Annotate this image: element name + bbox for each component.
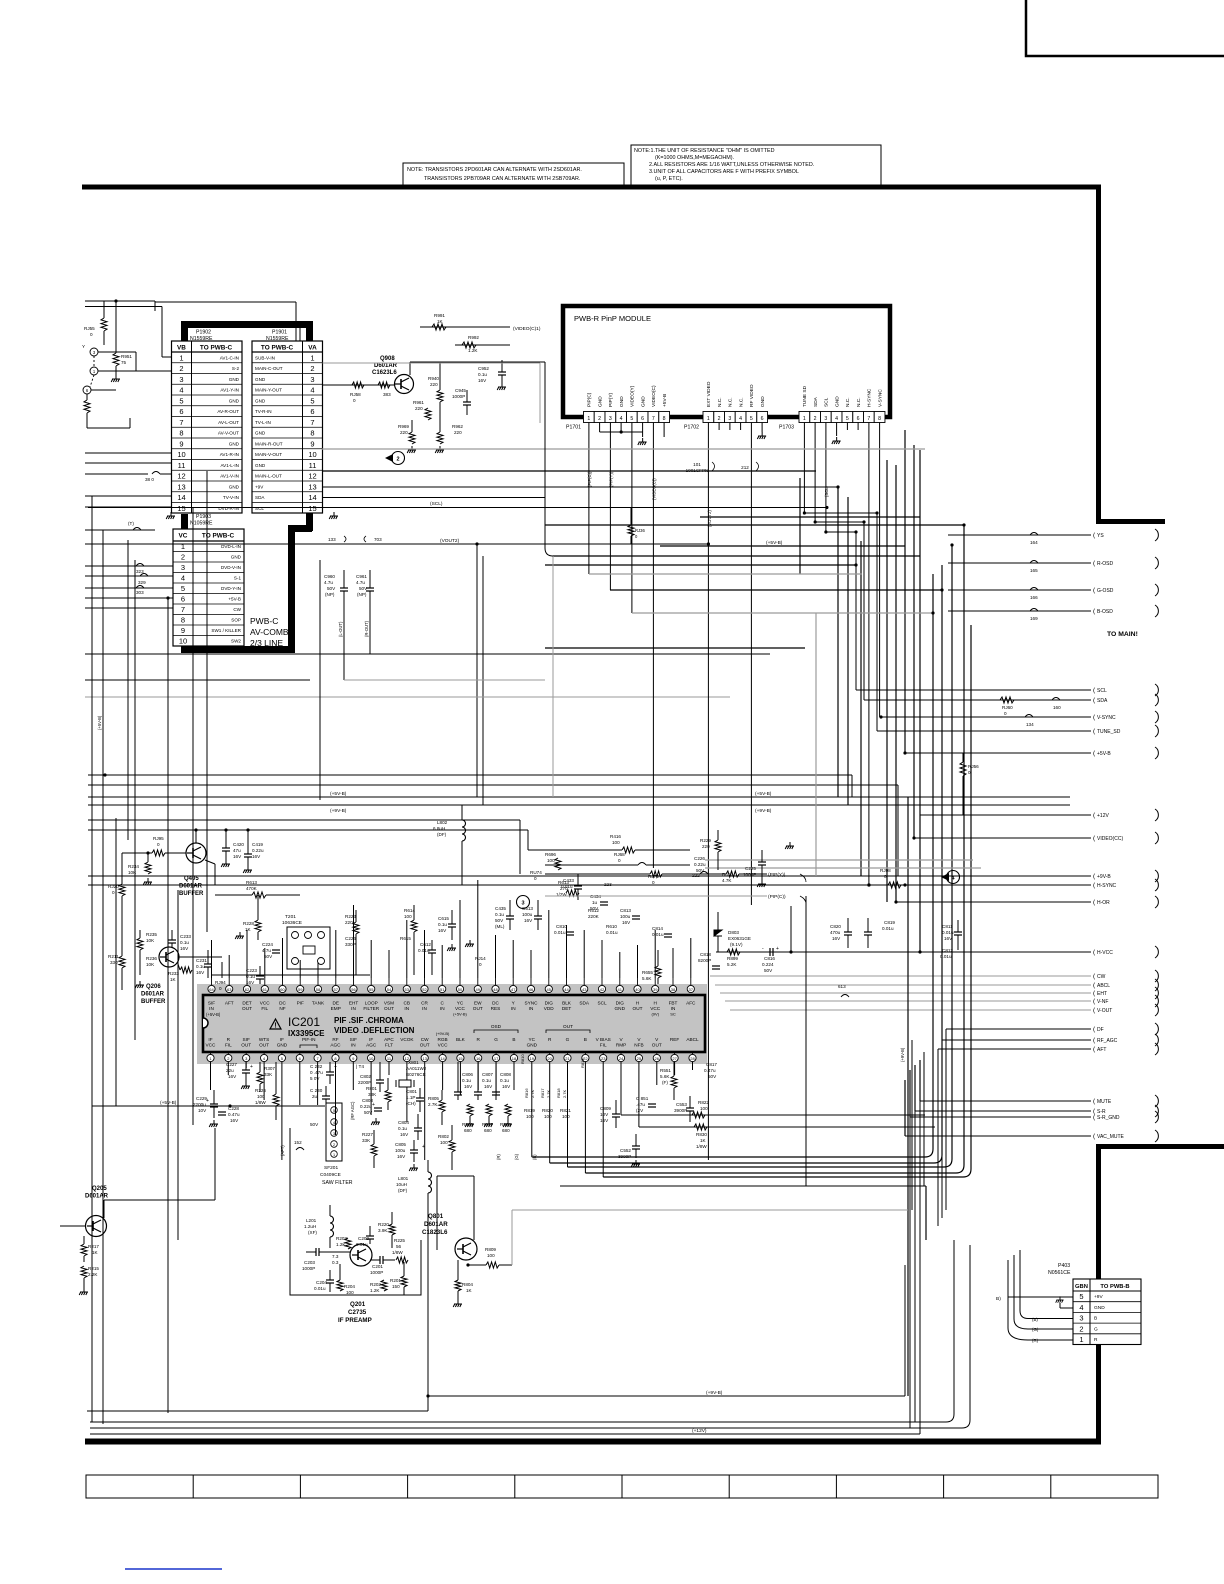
svg-text:0.22u: 0.22u <box>694 862 706 867</box>
svg-text:RJ20: RJ20 <box>108 884 119 889</box>
svg-text:N.C.: N.C. <box>845 397 851 407</box>
svg-text:16V: 16V <box>600 1118 609 1123</box>
svg-text:0.01u: 0.01u <box>356 1242 368 1247</box>
svg-text:0.1u: 0.1u <box>196 964 205 969</box>
svg-text:RJ55: RJ55 <box>84 326 95 331</box>
svg-text:2.7K: 2.7K <box>546 1089 551 1098</box>
wire VA row <box>323 497 546 499</box>
svg-text:6: 6 <box>857 416 860 422</box>
svg-text:GND: GND <box>229 398 240 403</box>
svg-text:+9V: +9V <box>1094 1294 1103 1300</box>
module box PWB-R PinP <box>563 306 890 417</box>
svg-text:3: 3 <box>333 1132 335 1136</box>
svg-text:10: 10 <box>308 450 316 459</box>
svg-text:EX0631GE: EX0631GE <box>728 936 751 941</box>
svg-text:+: + <box>422 1144 425 1150</box>
svg-text:C804: C804 <box>398 1120 409 1125</box>
svg-text:1: 1 <box>1079 1335 1083 1344</box>
svg-text:(: ( <box>1093 812 1096 819</box>
svg-text:10: 10 <box>177 450 185 459</box>
svg-text:L801: L801 <box>398 1176 409 1181</box>
svg-text:4: 4 <box>310 386 314 395</box>
svg-text:VCC: VCC <box>455 1006 466 1011</box>
wire vertical R-OUT <box>369 640 371 654</box>
svg-text:CW: CW <box>233 607 241 612</box>
svg-text:C811: C811 <box>942 924 953 929</box>
thick outline right vertical <box>306 324 313 531</box>
svg-text:OUT: OUT <box>242 1006 252 1011</box>
svg-text:5: 5 <box>1079 1292 1083 1301</box>
svg-text:10: 10 <box>369 1056 374 1061</box>
wire VA row <box>323 486 839 488</box>
svg-text:ABCL: ABCL <box>686 1037 699 1042</box>
svg-text:R220: R220 <box>378 1222 389 1227</box>
svg-text:50V: 50V <box>327 586 336 591</box>
svg-text:R551: R551 <box>660 1068 671 1073</box>
resistor jump 160 <box>1052 698 1060 701</box>
svg-text:FLT: FLT <box>385 1043 393 1048</box>
svg-text:R821: R821 <box>560 1108 571 1113</box>
svg-text:+5V-B: +5V-B <box>228 597 241 602</box>
svg-text:(+9V-B): (+9V-B) <box>706 1390 723 1396</box>
svg-text:DET: DET <box>562 1006 572 1011</box>
ground R807 <box>484 1120 493 1127</box>
svg-text:0: 0 <box>884 874 887 879</box>
svg-text:21: 21 <box>565 1056 570 1061</box>
svg-text:SDA: SDA <box>813 396 819 407</box>
svg-text:R202: R202 <box>370 1282 381 1287</box>
svg-text:C233: C233 <box>180 934 191 939</box>
svg-text:H-SYNC: H-SYNC <box>867 388 873 407</box>
svg-text:GND: GND <box>834 396 840 407</box>
svg-text:7: 7 <box>652 416 655 422</box>
svg-text:(DF): (DF) <box>437 832 447 837</box>
svg-text:X801: X801 <box>408 1060 419 1065</box>
thick outline jog <box>288 525 312 532</box>
svg-text:3: 3 <box>310 375 314 384</box>
svg-text:3900P: 3900P <box>674 1108 687 1113</box>
svg-text:100: 100 <box>404 914 412 919</box>
svg-text:S-R_GND: S-R_GND <box>1097 1115 1120 1121</box>
svg-text:38: 38 <box>671 987 676 992</box>
svg-text:NF: NF <box>279 1006 285 1011</box>
wire left stub <box>85 607 173 609</box>
wire left stub <box>85 473 148 475</box>
svg-text:50: 50 <box>458 987 463 992</box>
svg-text:27: 27 <box>672 1056 677 1061</box>
svg-text:FILTER: FILTER <box>363 1006 379 1011</box>
svg-text:(: ( <box>1093 835 1096 842</box>
svg-text:46: 46 <box>529 987 534 992</box>
wire left stub <box>85 543 171 545</box>
svg-text:R804: R804 <box>462 1282 473 1287</box>
svg-text:26: 26 <box>655 1056 660 1061</box>
svg-text:(VIDEO(C)): (VIDEO(C)) <box>651 478 656 500</box>
svg-text:G: G <box>566 1037 570 1042</box>
svg-text:P1903: P1903 <box>196 514 211 520</box>
wire P403 R <box>1028 1339 1073 1341</box>
resistor R830 <box>639 1126 935 1128</box>
svg-text:1: 1 <box>93 369 96 374</box>
svg-text:!: ! <box>274 1023 276 1030</box>
ground P403 <box>1060 1307 1073 1309</box>
svg-text:613: 613 <box>838 984 846 989</box>
svg-text:4: 4 <box>835 416 838 422</box>
resistor RJ56 <box>962 753 964 762</box>
svg-text:R813: R813 <box>580 1058 585 1068</box>
svg-text:16V: 16V <box>230 1118 239 1123</box>
svg-text:9: 9 <box>181 626 185 635</box>
svg-text:B: B <box>1094 1316 1097 1322</box>
svg-text:V-OUT: V-OUT <box>1097 1008 1112 1014</box>
svg-text:R229: R229 <box>700 838 711 843</box>
svg-text:C 232: C 232 <box>310 1064 323 1069</box>
svg-text:100: 100 <box>562 1114 570 1119</box>
svg-text:165: 165 <box>1030 568 1038 573</box>
wire left stub <box>85 462 171 464</box>
svg-text:IF: IF <box>369 1037 373 1042</box>
svg-text:2: 2 <box>310 364 314 373</box>
wire to +5V-B exit <box>905 752 1091 754</box>
svg-text:(R-OUT): (R-OUT) <box>364 620 369 637</box>
svg-text:C813: C813 <box>620 908 631 913</box>
wire left stub <box>85 565 173 567</box>
wire bottom +12V <box>90 1433 920 1435</box>
note box resistance units <box>631 145 881 185</box>
wire to RF_AGC exit <box>942 1039 1091 1041</box>
svg-text:VC: VC <box>179 533 188 540</box>
svg-text:IF: IF <box>208 1037 212 1042</box>
svg-text:GND: GND <box>255 377 266 382</box>
ground Q908 emitter resistors <box>407 446 416 453</box>
wire to G-OSD exit <box>948 589 1091 591</box>
svg-text:(: ( <box>1093 728 1096 735</box>
svg-text:AV1-R-IN: AV1-R-IN <box>220 452 239 457</box>
svg-text:0.01u: 0.01u <box>942 930 954 935</box>
svg-text:(: ( <box>1093 1098 1096 1105</box>
wire H-VCC mid <box>789 950 792 953</box>
svg-text:8: 8 <box>181 616 185 625</box>
svg-text:6: 6 <box>179 407 183 416</box>
svg-text:R235: R235 <box>146 932 157 937</box>
svg-text:C224: C224 <box>262 942 273 947</box>
svg-text:(2V: (2V <box>636 1108 644 1113</box>
thick border bottom <box>85 1439 1101 1445</box>
wire to B-OSD exit <box>948 610 1091 612</box>
svg-text:3: 3 <box>728 416 731 422</box>
svg-text:11: 11 <box>309 461 317 470</box>
svg-text:6: 6 <box>86 388 89 393</box>
svg-text:1K: 1K <box>170 977 177 982</box>
svg-text:680: 680 <box>484 1128 492 1133</box>
svg-text:(+5V-B): (+5V-B) <box>330 791 347 797</box>
wire mesh vertical bundle <box>800 430 971 1396</box>
ground P1701 <box>638 438 647 445</box>
svg-text:SCL: SCL <box>255 506 264 511</box>
svg-text:PIP(C): PIP(C) <box>587 392 593 407</box>
wire left vertical x135 <box>134 560 136 1040</box>
svg-text:MAIN-V-OUT: MAIN-V-OUT <box>255 452 282 457</box>
wire P1701 pins down <box>589 423 664 869</box>
svg-text:C812: C812 <box>942 948 953 953</box>
svg-text:R236: R236 <box>146 956 157 961</box>
svg-text:(: ( <box>1093 714 1096 721</box>
svg-text:0 .47u: 0 .47u <box>310 1070 323 1075</box>
svg-text:R822: R822 <box>698 1100 709 1105</box>
svg-text:C226: C226 <box>345 936 356 941</box>
svg-text:16V: 16V <box>478 378 487 383</box>
svg-text:7: 7 <box>181 605 185 614</box>
svg-text:10uH: 10uH <box>396 1182 407 1187</box>
svg-text:(+5V-B): (+5V-B) <box>766 540 783 546</box>
svg-text:100: 100 <box>440 1140 448 1145</box>
svg-text:55: 55 <box>369 987 374 992</box>
wire to MUTE exit <box>920 1100 1091 1102</box>
svg-text:16V: 16V <box>397 1154 406 1159</box>
svg-text:330: 330 <box>110 960 118 965</box>
svg-text:(DF): (DF) <box>398 1188 408 1193</box>
resistor 383 <box>378 382 390 388</box>
wire left vertical x103 <box>102 530 104 1424</box>
svg-text:48: 48 <box>493 987 498 992</box>
svg-text:GND: GND <box>597 396 603 407</box>
svg-text:(: ( <box>1093 973 1096 980</box>
svg-text:10V: 10V <box>198 1108 207 1113</box>
svg-text:(: ( <box>1093 687 1096 694</box>
svg-text:PWB-R PinP MODULE: PWB-R PinP MODULE <box>574 314 651 323</box>
ground C420 <box>221 860 230 867</box>
svg-text:(: ( <box>1093 1133 1096 1140</box>
svg-text:R613: R613 <box>558 880 569 885</box>
hyperlink underline <box>125 1568 222 1570</box>
svg-text:(+9V-B): (+9V-B) <box>900 1047 905 1062</box>
svg-text:+: + <box>250 1064 253 1070</box>
svg-text:0.1u: 0.1u <box>500 1078 509 1083</box>
svg-text:TO PWB-C: TO PWB-C <box>261 345 294 352</box>
wire vertical x806 low <box>805 896 807 1186</box>
svg-text:MAIN-L-OUT: MAIN-L-OUT <box>255 474 282 479</box>
wire IC bottom pin stubs <box>211 1062 693 1177</box>
svg-text:| T4: | T4 <box>356 1064 364 1070</box>
svg-text:+12V: +12V <box>1097 813 1109 819</box>
ground R806 <box>465 1120 474 1127</box>
svg-text:TANK: TANK <box>312 1001 325 1006</box>
svg-text:H-SYNC: H-SYNC <box>1097 883 1117 889</box>
svg-text:4: 4 <box>739 416 742 422</box>
svg-text:B): B) <box>996 1296 1001 1302</box>
svg-text:GND: GND <box>760 396 766 407</box>
svg-text:VIDEO .DEFLECTION: VIDEO .DEFLECTION <box>334 1026 415 1035</box>
svg-text:100: 100 <box>526 1114 534 1119</box>
svg-text:EXT VIDEO: EXT VIDEO <box>706 381 712 407</box>
svg-text:G-OSD: G-OSD <box>1097 588 1114 594</box>
svg-text:1.1P: 1.1P <box>406 1095 415 1100</box>
svg-text:C2735: C2735 <box>348 1309 367 1316</box>
svg-text:IN: IN <box>209 1006 214 1011</box>
svg-text:16V: 16V <box>196 970 205 975</box>
svg-text:470u: 470u <box>830 930 841 935</box>
svg-text:SDA: SDA <box>579 1001 590 1006</box>
svg-text:RJ60: RJ60 <box>1002 705 1013 710</box>
svg-text:NFB: NFB <box>634 1043 643 1048</box>
svg-text:4.7u: 4.7u <box>262 948 271 953</box>
svg-text:8: 8 <box>663 416 666 422</box>
svg-text:(CH): (CH) <box>406 1101 416 1106</box>
wire P1702 pins down <box>708 423 762 1161</box>
svg-text:SOP: SOP <box>231 618 241 623</box>
svg-text:101: 101 <box>693 462 701 467</box>
svg-text:DC: DC <box>279 1001 286 1006</box>
svg-text:C801: C801 <box>406 1089 417 1094</box>
resistor left edge <box>84 400 90 413</box>
svg-text:DC: DC <box>492 1001 499 1006</box>
svg-text:OUT: OUT <box>652 1043 662 1048</box>
svg-text:BLK: BLK <box>456 1037 466 1042</box>
svg-text:R951: R951 <box>121 354 132 359</box>
svg-text:NOTE:1.THE UNIT OF RESISTANCE: NOTE:1.THE UNIT OF RESISTANCE "OHM" IS O… <box>634 148 775 154</box>
svg-text:IN: IN <box>351 1043 356 1048</box>
svg-text:R801: R801 <box>366 1086 377 1091</box>
svg-text:169: 169 <box>1030 616 1038 621</box>
svg-text:(VOUT2): (VOUT2) <box>707 510 712 527</box>
connector P1702 pin strip <box>703 412 768 423</box>
wire P403 +9V <box>1008 1296 1073 1298</box>
svg-text:AV-V-OUT: AV-V-OUT <box>218 431 239 436</box>
ground Q801 <box>453 1300 462 1307</box>
ground Q205 <box>79 1288 88 1295</box>
svg-text:5: 5 <box>310 396 314 405</box>
svg-text:133: 133 <box>328 537 336 542</box>
svg-text:(NP): (NP) <box>325 592 335 597</box>
svg-text:16V: 16V <box>438 928 447 933</box>
ground mid1 <box>447 944 456 951</box>
svg-text:39: 39 <box>653 987 658 992</box>
svg-text:152: 152 <box>294 1140 302 1145</box>
svg-text:15: 15 <box>308 504 316 513</box>
wire left stub <box>85 587 173 589</box>
svg-text:AFT: AFT <box>225 1001 234 1006</box>
svg-text:RJ56: RJ56 <box>968 764 979 769</box>
svg-text:4.7u: 4.7u <box>324 580 333 585</box>
svg-text:4: 4 <box>333 1121 335 1125</box>
svg-text:100: 100 <box>612 840 620 845</box>
resistor jump 164 <box>1030 533 1038 536</box>
pointer 2 <box>385 454 393 462</box>
svg-text:(+5V-B): (+5V-B) <box>453 1012 467 1017</box>
wire H-SYNC corner <box>867 883 870 886</box>
svg-text:R-OSD: R-OSD <box>1097 561 1114 567</box>
svg-text:220: 220 <box>430 382 438 387</box>
svg-text:R307: R307 <box>264 1066 275 1071</box>
svg-text:1K: 1K <box>466 1288 473 1293</box>
svg-text:R204: R204 <box>344 1284 355 1289</box>
svg-text:(PIP(Y)): (PIP(Y)) <box>608 471 613 487</box>
ground P1702 <box>757 432 766 439</box>
svg-text:0: 0 <box>219 986 222 991</box>
wire VOUT2 row <box>88 543 708 545</box>
svg-text:9: 9 <box>179 439 183 448</box>
svg-text:(L-OUT): (L-OUT) <box>338 621 343 637</box>
svg-text:C808: C808 <box>500 1072 511 1077</box>
svg-text:C227: C227 <box>226 1062 237 1067</box>
svg-text:GND: GND <box>229 377 240 382</box>
svg-text:16V: 16V <box>252 854 261 859</box>
svg-text:(: ( <box>1093 882 1096 889</box>
svg-text:R227: R227 <box>362 1132 373 1137</box>
wire left vertical x168 <box>167 598 169 1413</box>
ground C805 <box>409 1164 418 1171</box>
svg-text:EHT: EHT <box>1097 991 1107 997</box>
svg-text:DIG: DIG <box>616 1001 625 1006</box>
svg-text:16V: 16V <box>524 918 533 923</box>
svg-text:(T): (T) <box>128 521 134 526</box>
svg-text:C420: C420 <box>233 842 244 847</box>
wire vertical x545 pair <box>544 362 546 548</box>
svg-text:SIF: SIF <box>243 1037 250 1042</box>
svg-text:GND: GND <box>255 398 266 403</box>
svg-text:RF: RF <box>332 1037 338 1042</box>
svg-text:5: 5 <box>181 584 185 593</box>
wire vertical x116 <box>115 818 117 1106</box>
wire to SCL exit <box>1060 689 1091 691</box>
svg-text:(: ( <box>1093 949 1096 956</box>
svg-text:57: 57 <box>334 987 339 992</box>
svg-text:C809: C809 <box>600 1106 611 1111</box>
resistor jump 38 0 <box>152 472 160 475</box>
svg-text:0.1u: 0.1u <box>398 1126 407 1131</box>
svg-text:16V: 16V <box>502 1084 511 1089</box>
svg-text:2: 2 <box>718 416 721 422</box>
svg-text:WTS: WTS <box>259 1037 269 1042</box>
wire Q405 emitter <box>205 860 215 864</box>
svg-text:16V: 16V <box>228 1074 237 1079</box>
svg-text:16V: 16V <box>464 1084 473 1089</box>
connector P1703 pin strip <box>799 412 885 423</box>
svg-text:L802: L802 <box>437 820 448 825</box>
svg-text:(PIP(Y)): (PIP(Y)) <box>768 872 786 878</box>
svg-text:RMP: RMP <box>616 1043 626 1048</box>
svg-text:R810: R810 <box>520 1054 525 1064</box>
svg-text:C 230: C 230 <box>310 1088 323 1093</box>
svg-text:(: ( <box>1093 990 1096 997</box>
svg-text:MUTE: MUTE <box>1097 1099 1112 1105</box>
wire to R-OSD exit <box>948 562 1091 564</box>
svg-text:(VOUT2): (VOUT2) <box>440 538 460 544</box>
svg-text:R696: R696 <box>545 852 556 857</box>
resistor jump 166 <box>1030 588 1038 591</box>
svg-text:0.1u: 0.1u <box>482 1078 491 1083</box>
svg-text:0.22u: 0.22u <box>252 848 264 853</box>
svg-text:303: 303 <box>136 590 144 595</box>
svg-text:OUT: OUT <box>259 1043 269 1048</box>
svg-text:VIDEO(C): VIDEO(C) <box>651 385 657 407</box>
svg-text:(SCL): (SCL) <box>430 501 443 507</box>
svg-text:D601AR: D601AR <box>85 1194 109 1200</box>
svg-text:GND: GND <box>619 396 625 407</box>
svg-text:54: 54 <box>387 987 392 992</box>
svg-text:100u: 100u <box>395 1148 406 1153</box>
wire bottom y1411 <box>87 1410 428 1412</box>
svg-text:SDA: SDA <box>1097 698 1108 704</box>
resistor jump 165 <box>1030 561 1038 564</box>
svg-text:SF201: SF201 <box>324 1165 338 1171</box>
svg-text:0.01u: 0.01u <box>606 930 618 935</box>
svg-text:(+9V-B): (+9V-B) <box>330 808 347 814</box>
svg-text:0: 0 <box>157 842 160 847</box>
svg-text:B0276CE: B0276CE <box>406 1072 426 1077</box>
svg-text:100u: 100u <box>620 914 631 919</box>
svg-text:680: 680 <box>464 1128 472 1133</box>
